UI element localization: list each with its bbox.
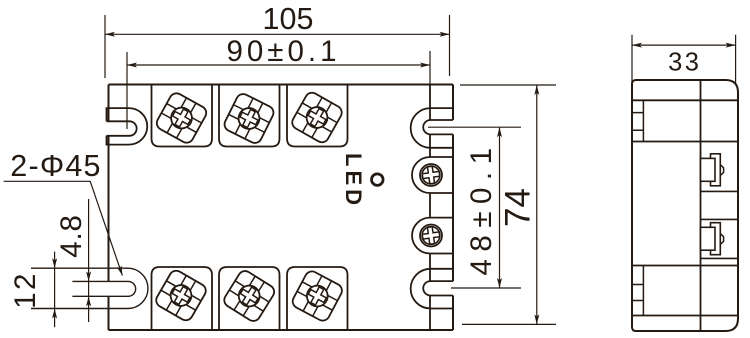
svg-text:90±0.1: 90±0.1 [226,35,340,68]
svg-text:LED: LED [341,153,366,209]
svg-text:2-Φ45: 2-Φ45 [10,149,101,183]
svg-text:4.8: 4.8 [55,214,88,257]
svg-text:48±0.1: 48±0.1 [465,140,498,275]
svg-text:74: 74 [498,188,537,227]
svg-text:105: 105 [263,2,314,36]
svg-text:12: 12 [9,271,42,309]
svg-text:33: 33 [668,49,701,77]
